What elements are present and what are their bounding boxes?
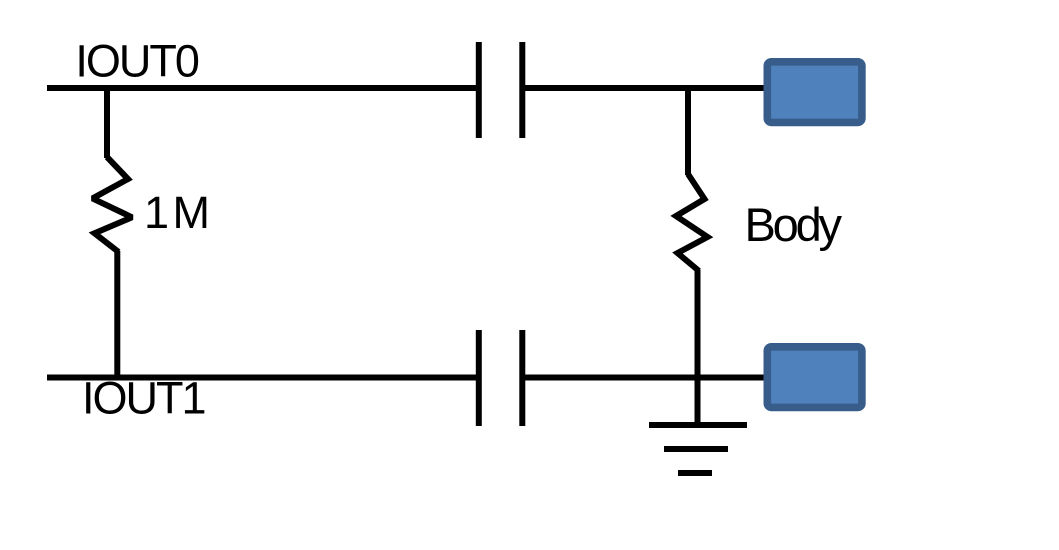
svg-text:Body: Body [745,198,843,251]
svg-text:1M: 1M [144,187,214,238]
svg-text:IOUT1: IOUT1 [82,372,205,423]
svg-text:IOUT0: IOUT0 [75,36,198,87]
